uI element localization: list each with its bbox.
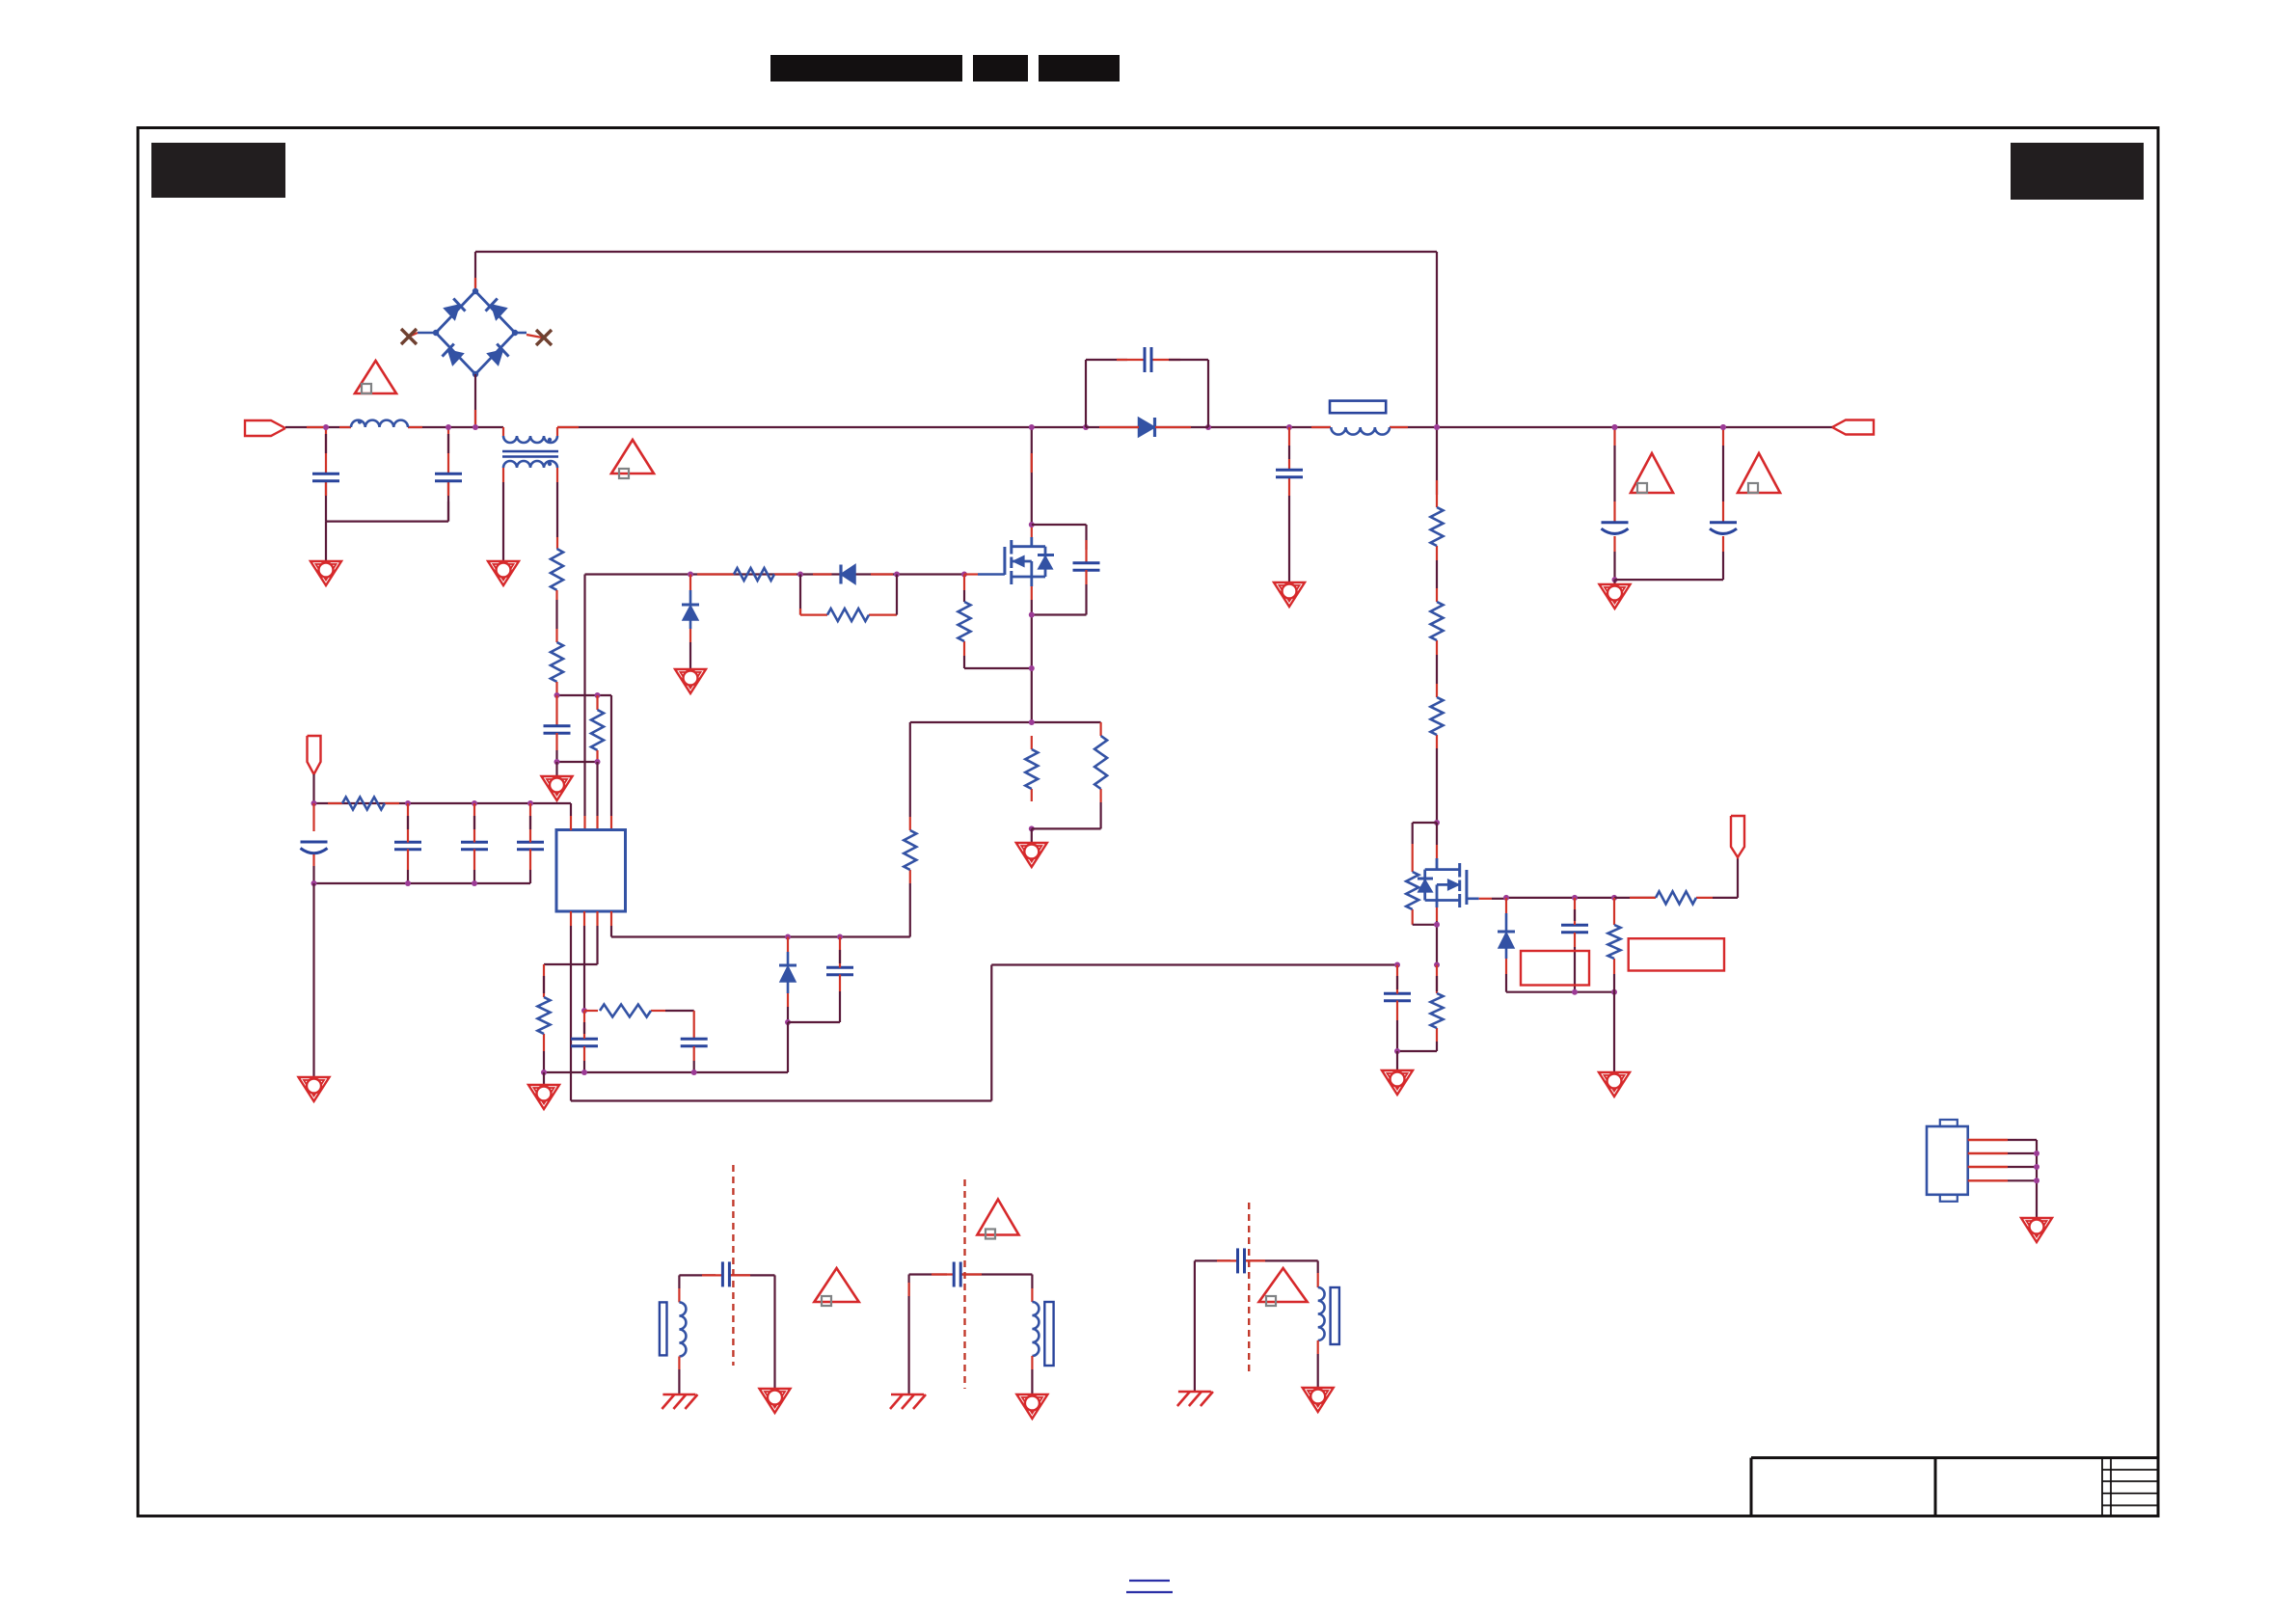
redaction box top-left: [151, 143, 285, 198]
wire S1 left leg: [678, 1275, 680, 1302]
wire Q2 drain stub: [1436, 823, 1438, 858]
wire C11 leads: [839, 937, 841, 1023]
junction Q2 drain node: [1434, 820, 1440, 826]
wire C1-C2 bottom rail: [326, 501, 448, 522]
wire 619 to IC pin3t: [596, 762, 598, 830]
wire main bus segment C: [1208, 426, 1331, 428]
connector J5: [1927, 1120, 1968, 1202]
zener diode D2: [682, 605, 699, 620]
wire C2 lead: [447, 427, 449, 522]
chassis ground G15: [890, 1394, 926, 1409]
connector J2: [308, 736, 321, 774]
wire S1 right leg: [773, 1275, 775, 1389]
resistor R16: [1406, 872, 1418, 909]
redaction box top-right: [2011, 143, 2144, 200]
wire R8 branch: [1099, 722, 1101, 828]
input connector J1: [245, 420, 285, 436]
wire R1-R2: [555, 590, 557, 642]
wire S1 left to chassis: [678, 1357, 680, 1395]
capacitor C18: [722, 1261, 729, 1286]
mosfet Q2: [1418, 858, 1467, 907]
wire pin2 node: [583, 926, 585, 1011]
capacitor C2: [435, 474, 462, 481]
ground G16: [1016, 1394, 1047, 1419]
wire choke right lead: [556, 468, 558, 549]
wire R3 top lead: [596, 695, 598, 710]
wire snubber cap bottom: [1032, 570, 1087, 615]
wire S2 top: [909, 1273, 1033, 1275]
resistor R18: [1608, 925, 1621, 959]
capacitor C19: [954, 1262, 960, 1287]
capacitor C1: [312, 474, 339, 481]
wire J2 to rail: [312, 774, 314, 803]
wire Q2 source: [1436, 907, 1438, 965]
mosfet Q1: [1005, 537, 1054, 586]
ground G6: [299, 1077, 330, 1101]
redaction bar title 2: [973, 55, 1028, 82]
junction Q1 source-cap: [1029, 612, 1035, 618]
inductor L1: [351, 420, 408, 427]
junction gate-zener: [688, 572, 693, 578]
wire Rs middle leads: [1031, 736, 1033, 801]
isolation dashed line S2: [963, 1179, 965, 1389]
resistor R5: [827, 609, 869, 621]
isolation dashed line S3: [1248, 1203, 1250, 1373]
wire row 1028.7: [1572, 989, 1617, 995]
ground G1: [311, 561, 341, 585]
output connector J4: [1832, 420, 1874, 435]
ground G3: [542, 776, 573, 800]
ground G10: [1274, 582, 1305, 607]
common-mode choke T1: [502, 427, 558, 468]
wire rail to ground G6: [312, 883, 314, 1077]
resistor R14: [1431, 602, 1444, 640]
capacitor C14: [1145, 347, 1151, 372]
x-mark AC1: [401, 329, 417, 344]
footer link underline 1: [1129, 1580, 1170, 1582]
wire main bus segment D: [1390, 426, 1832, 428]
wire R17 leads: [1614, 897, 1738, 899]
junction Q1 drain node: [1029, 522, 1035, 528]
label box redacted 2: [1629, 938, 1724, 970]
ground G18: [1303, 1388, 1334, 1412]
capacitor C16: [1602, 523, 1629, 534]
capacitor C9: [571, 1039, 598, 1046]
wire 1060 row: [788, 1021, 840, 1023]
wire R11 to C10: [665, 1011, 694, 1039]
ground G2: [488, 561, 519, 585]
junction FB res node: [1434, 962, 1440, 968]
diode D1: [1086, 418, 1208, 437]
wire Q1 source: [1031, 586, 1033, 722]
title block: [1751, 1458, 2158, 1516]
capacitor C20: [1238, 1248, 1245, 1273]
ground G4: [675, 669, 706, 693]
wire snubber top loop: [1086, 360, 1208, 427]
junction snubber left: [1083, 424, 1089, 430]
resistor R7: [1025, 749, 1038, 789]
wire D5 bottom: [1506, 948, 1575, 992]
wire C17 leads: [1722, 427, 1724, 580]
isolation dashed line S1: [732, 1165, 734, 1366]
wire S2 left leg: [907, 1275, 909, 1395]
ground G11: [1600, 584, 1631, 609]
wire C5 leads: [312, 803, 314, 883]
wire sense row: [910, 721, 1101, 723]
resistor R6: [959, 602, 971, 641]
x-mark AC2: [536, 330, 552, 345]
capacitor C13: [1384, 993, 1411, 1001]
capacitor C6: [394, 842, 421, 850]
resistor R10: [342, 798, 385, 810]
page frame border: [138, 128, 2158, 1517]
wire rail 833 to IC pin1t: [570, 803, 572, 830]
wire zener D2 bottom: [689, 620, 692, 669]
capacitor C15: [1276, 470, 1303, 477]
wire main bus segment A: [285, 426, 503, 428]
ground G9: [1382, 1070, 1413, 1095]
ground G14: [760, 1389, 791, 1413]
wire pin4 sense line: [611, 926, 910, 937]
resistor R2: [551, 642, 563, 682]
junction Q2 source node: [1434, 922, 1440, 928]
wire 1674 to ground G8: [1613, 992, 1615, 1072]
ground G7: [528, 1085, 559, 1109]
capacitor C5: [301, 842, 328, 853]
wire C13 leads: [1396, 965, 1398, 1052]
junction pin2 node: [581, 1008, 587, 1014]
wire gate bus: [585, 573, 965, 575]
wire top bus: [475, 251, 1437, 253]
resistor R12: [538, 997, 551, 1034]
resistor R4: [734, 568, 774, 581]
wire to ground G9: [1396, 1051, 1398, 1070]
wire S3 top: [1195, 1259, 1318, 1261]
wire rail to ground G7: [543, 1072, 545, 1085]
wire Q2 gate lead: [1467, 897, 1506, 900]
wire out bottom row: [1615, 579, 1724, 581]
wire zener D5 leads: [1505, 898, 1507, 932]
wire gate lead: [964, 573, 1005, 575]
wire to ground G1: [325, 522, 327, 561]
capacitor C11: [826, 967, 853, 975]
junction sense bottom: [1029, 826, 1035, 831]
wire S3 right to ground: [1317, 1340, 1319, 1388]
junction FB cap node: [1394, 962, 1400, 968]
zener diode D4: [779, 965, 797, 982]
wire J5 pins: [1968, 1140, 2039, 1218]
transformer core T4: [1331, 1287, 1339, 1344]
ic U1 bottom pin stubs: [571, 911, 611, 926]
junction zener D4 node: [785, 934, 791, 940]
wire C15 leads: [1288, 427, 1290, 582]
wire R11 leads: [584, 1010, 665, 1012]
warning triangle W7: [1259, 1268, 1308, 1306]
resistor R8: [1094, 736, 1107, 789]
junction mid cap: [1286, 424, 1292, 430]
junction gate node D: [961, 572, 967, 578]
transformer winding T3a: [1032, 1302, 1053, 1366]
wire C3 bottom: [555, 733, 557, 762]
ground G5: [1016, 843, 1047, 867]
label box redacted 1: [1521, 951, 1589, 986]
wire gnd rail 1112: [541, 1069, 788, 1075]
wire S2 right to ground: [1031, 1356, 1033, 1394]
wire C1 lead: [325, 427, 327, 522]
junction gate node C: [894, 572, 900, 578]
transformer winding T2a: [660, 1302, 687, 1356]
wire rail 916: [311, 880, 531, 886]
warning triangle W4: [1738, 453, 1780, 493]
inductor L2: [1330, 401, 1390, 435]
wire row 790: [554, 759, 601, 765]
wire C10 bottom: [693, 1046, 695, 1072]
wire C8 leads: [529, 803, 531, 883]
chassis ground G17: [1177, 1392, 1213, 1406]
junction out cap1: [1612, 424, 1618, 430]
wire D4 bottom: [787, 982, 790, 1022]
wire C12 leads: [1574, 898, 1576, 992]
wire S1 top: [679, 1274, 774, 1276]
capacitor C12: [1561, 925, 1588, 933]
wire R9 branch: [909, 722, 911, 937]
capacitor C10: [681, 1039, 708, 1046]
wire Q1 drain: [1031, 427, 1033, 537]
ground G12: [2021, 1218, 2052, 1242]
wire R6 bottom row: [964, 667, 1032, 669]
resistor R3: [591, 710, 604, 750]
wire rail 833: [311, 800, 572, 806]
resistor R13: [1431, 507, 1444, 546]
wire S2 right leg: [1031, 1275, 1033, 1303]
capacitor C4: [1073, 563, 1100, 571]
junctions main bus: [323, 424, 1726, 430]
junction HV main: [1434, 424, 1440, 430]
wire to ground G5: [1031, 828, 1033, 843]
ground G8: [1599, 1072, 1630, 1096]
redaction bar title 3: [1039, 55, 1120, 82]
wire gate2 bus: [1503, 895, 1617, 901]
resistor R15: [1431, 697, 1444, 735]
wire R3 bottom: [596, 750, 598, 762]
wire 817 down to rail: [787, 1022, 789, 1072]
wire C6 leads: [407, 803, 409, 883]
wire C3 lead: [555, 695, 557, 726]
footer link underline 2: [1126, 1591, 1173, 1593]
resistor R17: [1656, 891, 1696, 904]
bridge rectifier BD1: [433, 288, 518, 377]
wire bridge left AC lead: [409, 333, 436, 337]
wire S3 right leg: [1317, 1260, 1319, 1287]
wire bridge top lead: [474, 252, 476, 291]
wire 634 to IC pin4t: [610, 695, 612, 830]
wire R2 to node: [555, 682, 557, 695]
wire C16 leads: [1613, 427, 1615, 580]
wire to ground G11: [1613, 580, 1615, 584]
junction out cap1 bottom: [1612, 577, 1618, 582]
resistor R19: [1431, 993, 1444, 1028]
wire pin3 branch: [544, 926, 598, 1072]
wire R18 leads: [1613, 898, 1615, 992]
wire row 1090: [1394, 1048, 1437, 1054]
warning triangle W2: [611, 440, 654, 478]
wire S3 left leg: [1194, 1260, 1196, 1392]
junction out cap2: [1720, 424, 1726, 430]
warning triangle W1: [355, 361, 396, 393]
wire row 721: [554, 692, 612, 698]
transformer winding T4a: [1318, 1287, 1325, 1340]
zener diode D5: [1498, 932, 1515, 948]
wire snubber cap branch: [1032, 525, 1087, 563]
ic U1: [556, 830, 626, 912]
resistor R11: [600, 1005, 651, 1017]
capacitor C7: [461, 842, 488, 850]
redaction bar title 1: [770, 55, 962, 82]
junction snubber right: [1205, 424, 1211, 430]
wire bridge bottom lead: [474, 374, 476, 427]
warning triangle W6: [977, 1200, 1018, 1239]
capacitor C17: [1710, 523, 1737, 534]
capacitor C8: [517, 842, 544, 850]
wire R17 to connector: [1737, 857, 1739, 898]
chassis ground G13: [662, 1394, 697, 1409]
wire main bus segment B: [557, 426, 1086, 428]
junction sense node: [1029, 719, 1035, 725]
warning triangle W3: [1631, 453, 1673, 493]
capacitor C3: [544, 726, 571, 734]
wire to ground G3: [555, 762, 557, 776]
connector J3: [1731, 816, 1744, 857]
diode D3: [841, 565, 855, 584]
warning triangle W5: [814, 1268, 858, 1306]
resistor R9: [904, 830, 916, 870]
junction Q1 source-R6: [1029, 665, 1035, 671]
wire snubber loop: [800, 575, 897, 615]
wire zener D2 top lead: [689, 575, 691, 606]
wire HV divider top: [1436, 252, 1438, 427]
wire pin1 feedback run: [571, 926, 1397, 1101]
wire C9 leads: [583, 1011, 585, 1072]
junction gate node B: [797, 572, 803, 578]
wire HV divider: [1436, 427, 1438, 823]
wire zener D4 leads: [787, 937, 789, 966]
junction cap C11 node: [837, 934, 843, 940]
wire Q2 parallel R: [1413, 823, 1437, 925]
wire C7 leads: [473, 803, 475, 883]
wire R19 leads: [1436, 965, 1438, 1052]
wire choke left to ground: [502, 468, 504, 561]
resistor R1: [551, 549, 563, 590]
wire bridge right AC lead: [515, 333, 542, 338]
wire sense bottom row: [1032, 827, 1101, 829]
junction D4 bottom node: [785, 1019, 791, 1025]
wire gate bus to IC pin2t: [583, 575, 585, 831]
wire R6 leads: [963, 575, 965, 669]
